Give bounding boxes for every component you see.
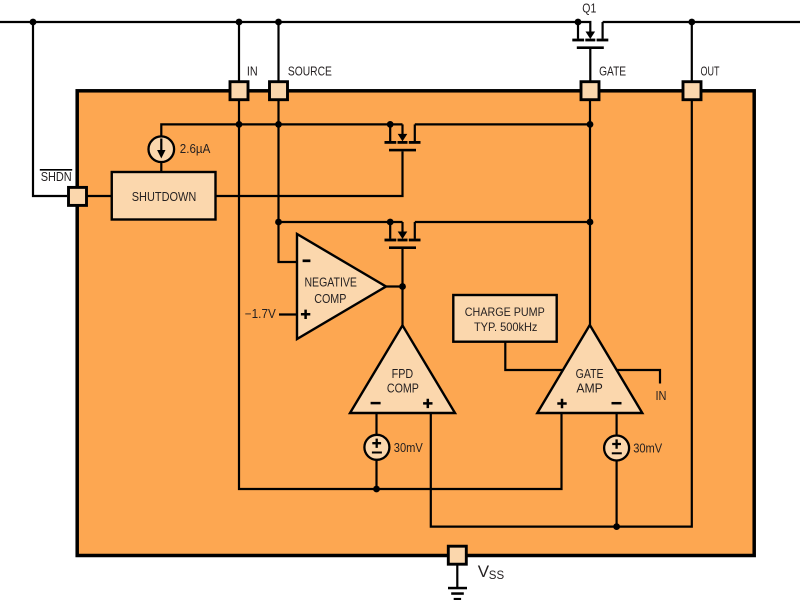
svg-text:AMP: AMP: [576, 381, 603, 395]
svg-text:30mV: 30mV: [394, 441, 424, 455]
svg-text:NEGATIVE: NEGATIVE: [304, 275, 357, 289]
svg-text:SHDN: SHDN: [41, 170, 72, 184]
svg-text:−1.7V: −1.7V: [245, 307, 277, 321]
svg-text:SOURCE: SOURCE: [288, 65, 332, 79]
svg-text:OUT: OUT: [701, 65, 720, 79]
svg-text:IN: IN: [656, 389, 667, 403]
svg-text:GATE: GATE: [599, 65, 626, 79]
svg-text:FPD: FPD: [392, 367, 414, 381]
svg-text:SHUTDOWN: SHUTDOWN: [132, 189, 197, 204]
svg-text:CHARGE PUMP: CHARGE PUMP: [465, 305, 545, 319]
svg-text:IN: IN: [247, 65, 258, 79]
svg-text:GATE: GATE: [576, 367, 604, 381]
svg-text:30mV: 30mV: [633, 441, 663, 455]
svg-text:2.6µA: 2.6µA: [180, 141, 211, 156]
svg-text:COMP: COMP: [314, 292, 346, 306]
svg-text:COMP: COMP: [387, 381, 419, 395]
svg-text:Q1: Q1: [582, 0, 596, 15]
svg-text:SS: SS: [489, 570, 505, 582]
svg-text:TYP. 500kHz: TYP. 500kHz: [474, 320, 538, 334]
